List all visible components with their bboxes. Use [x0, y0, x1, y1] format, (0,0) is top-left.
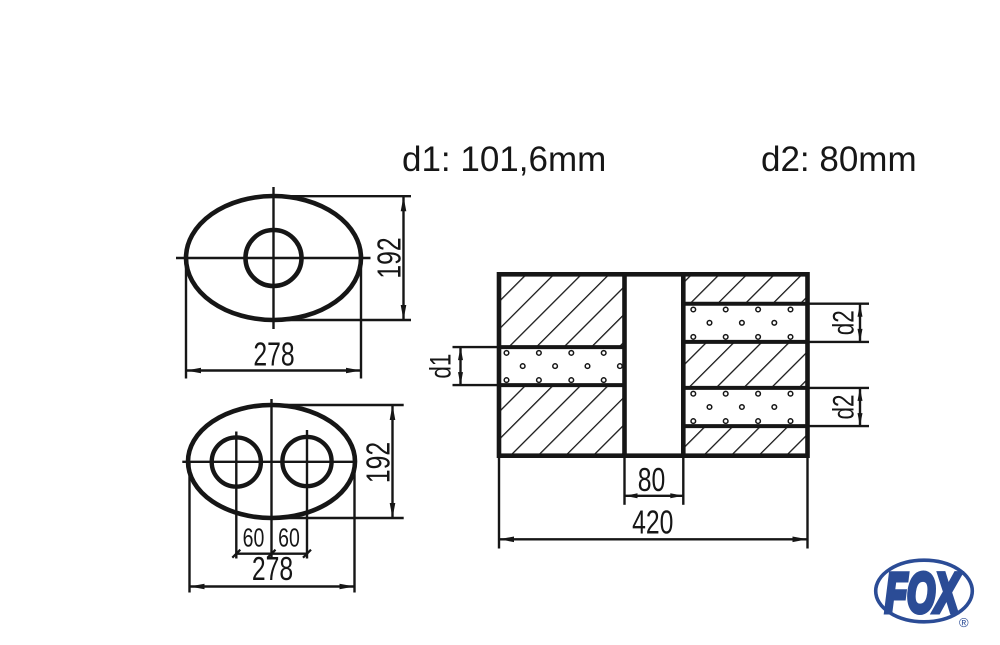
- svg-text:60: 60: [278, 523, 300, 552]
- wire: figure2 main vertical centerline: [270, 399, 272, 559]
- dimension 278 figure2: extension lines: [188, 462, 190, 593]
- dimension 192 figure1: extension lines: [274, 195, 412, 197]
- dimension 60-60 figure2: dimension line: [236, 553, 307, 555]
- FOX logo ellipse: [876, 560, 973, 622]
- dimension 278 figure1: dimension line with arrows: [186, 369, 361, 371]
- svg-text:d1: 101,6mm: d1: 101,6mm: [402, 140, 606, 179]
- svg-text:d1: d1: [423, 354, 457, 379]
- dimension d2 lower: dimension line with arrows: [859, 388, 861, 426]
- dimension d1: dimension line with arrows: [459, 347, 461, 385]
- dimension d1: extension lines: [453, 346, 500, 348]
- right pipe hole figure2: [282, 437, 331, 486]
- svg-text:192: 192: [361, 442, 397, 483]
- oval body outline figure1: [186, 196, 361, 320]
- dimension d2 lower: extension lines: [808, 387, 870, 389]
- dimension 192 figure2: dimension line with arrows: [391, 405, 393, 518]
- dimension 192 figure1: dimension line with arrows: [402, 196, 404, 320]
- dimension d2 upper: dimension line with arrows: [859, 304, 861, 342]
- hatched absorber area left-top: [499, 274, 625, 347]
- perforated pipe band d2 lower (right): [683, 388, 807, 426]
- dimension d2 upper: extension lines: [808, 303, 870, 305]
- svg-text:60: 60: [243, 523, 265, 552]
- svg-text:FOX: FOX: [885, 561, 961, 624]
- wire: figure2 left hole centerline: [235, 432, 237, 559]
- dimension 278 figure2: dimension line with arrows: [190, 585, 355, 587]
- perforated pipe band d2 upper (right): [683, 304, 807, 342]
- dimension 192 figure2: extension lines: [272, 404, 404, 406]
- svg-text:80: 80: [638, 463, 666, 499]
- svg-text:278: 278: [253, 337, 294, 373]
- hatched absorber area right-top: [683, 274, 807, 303]
- inner pipe hole d1 figure1: [246, 230, 302, 286]
- wire: figure2 right hole centerline: [306, 430, 308, 559]
- svg-text:®: ®: [959, 615, 969, 630]
- dimension 420: extension lines: [498, 456, 500, 549]
- perforated pipe band d1 (left): [499, 347, 625, 385]
- hatched absorber area left-bottom: [499, 385, 625, 456]
- svg-text:278: 278: [252, 552, 293, 588]
- dimension 420: dimension line with arrows: [499, 538, 808, 540]
- dimension 80: dimension line with arrows: [625, 495, 684, 497]
- left pipe hole figure2: [212, 437, 261, 486]
- svg-text:d2: d2: [826, 310, 860, 335]
- wire: figure2 horizontal centerline: [182, 461, 355, 463]
- svg-text:420: 420: [632, 505, 673, 541]
- centre chamber right wall: [681, 274, 686, 455]
- svg-text:d2: d2: [826, 394, 860, 419]
- hatched absorber area right-bottom: [683, 426, 807, 456]
- centre chamber left wall: [622, 274, 627, 455]
- hatched absorber area right-middle: [683, 342, 807, 388]
- svg-text:d2: 80mm: d2: 80mm: [761, 140, 917, 179]
- dimension 80: extension lines: [623, 456, 625, 505]
- muffler body outline (cross-section): [499, 274, 808, 455]
- dimension 278 figure1: extension lines: [185, 258, 187, 379]
- oval body outline figure2: [188, 405, 355, 518]
- wire: figure1 horizontal centerline: [176, 257, 371, 259]
- wire: figure1 vertical centerline: [272, 187, 274, 329]
- svg-text:192: 192: [372, 237, 408, 278]
